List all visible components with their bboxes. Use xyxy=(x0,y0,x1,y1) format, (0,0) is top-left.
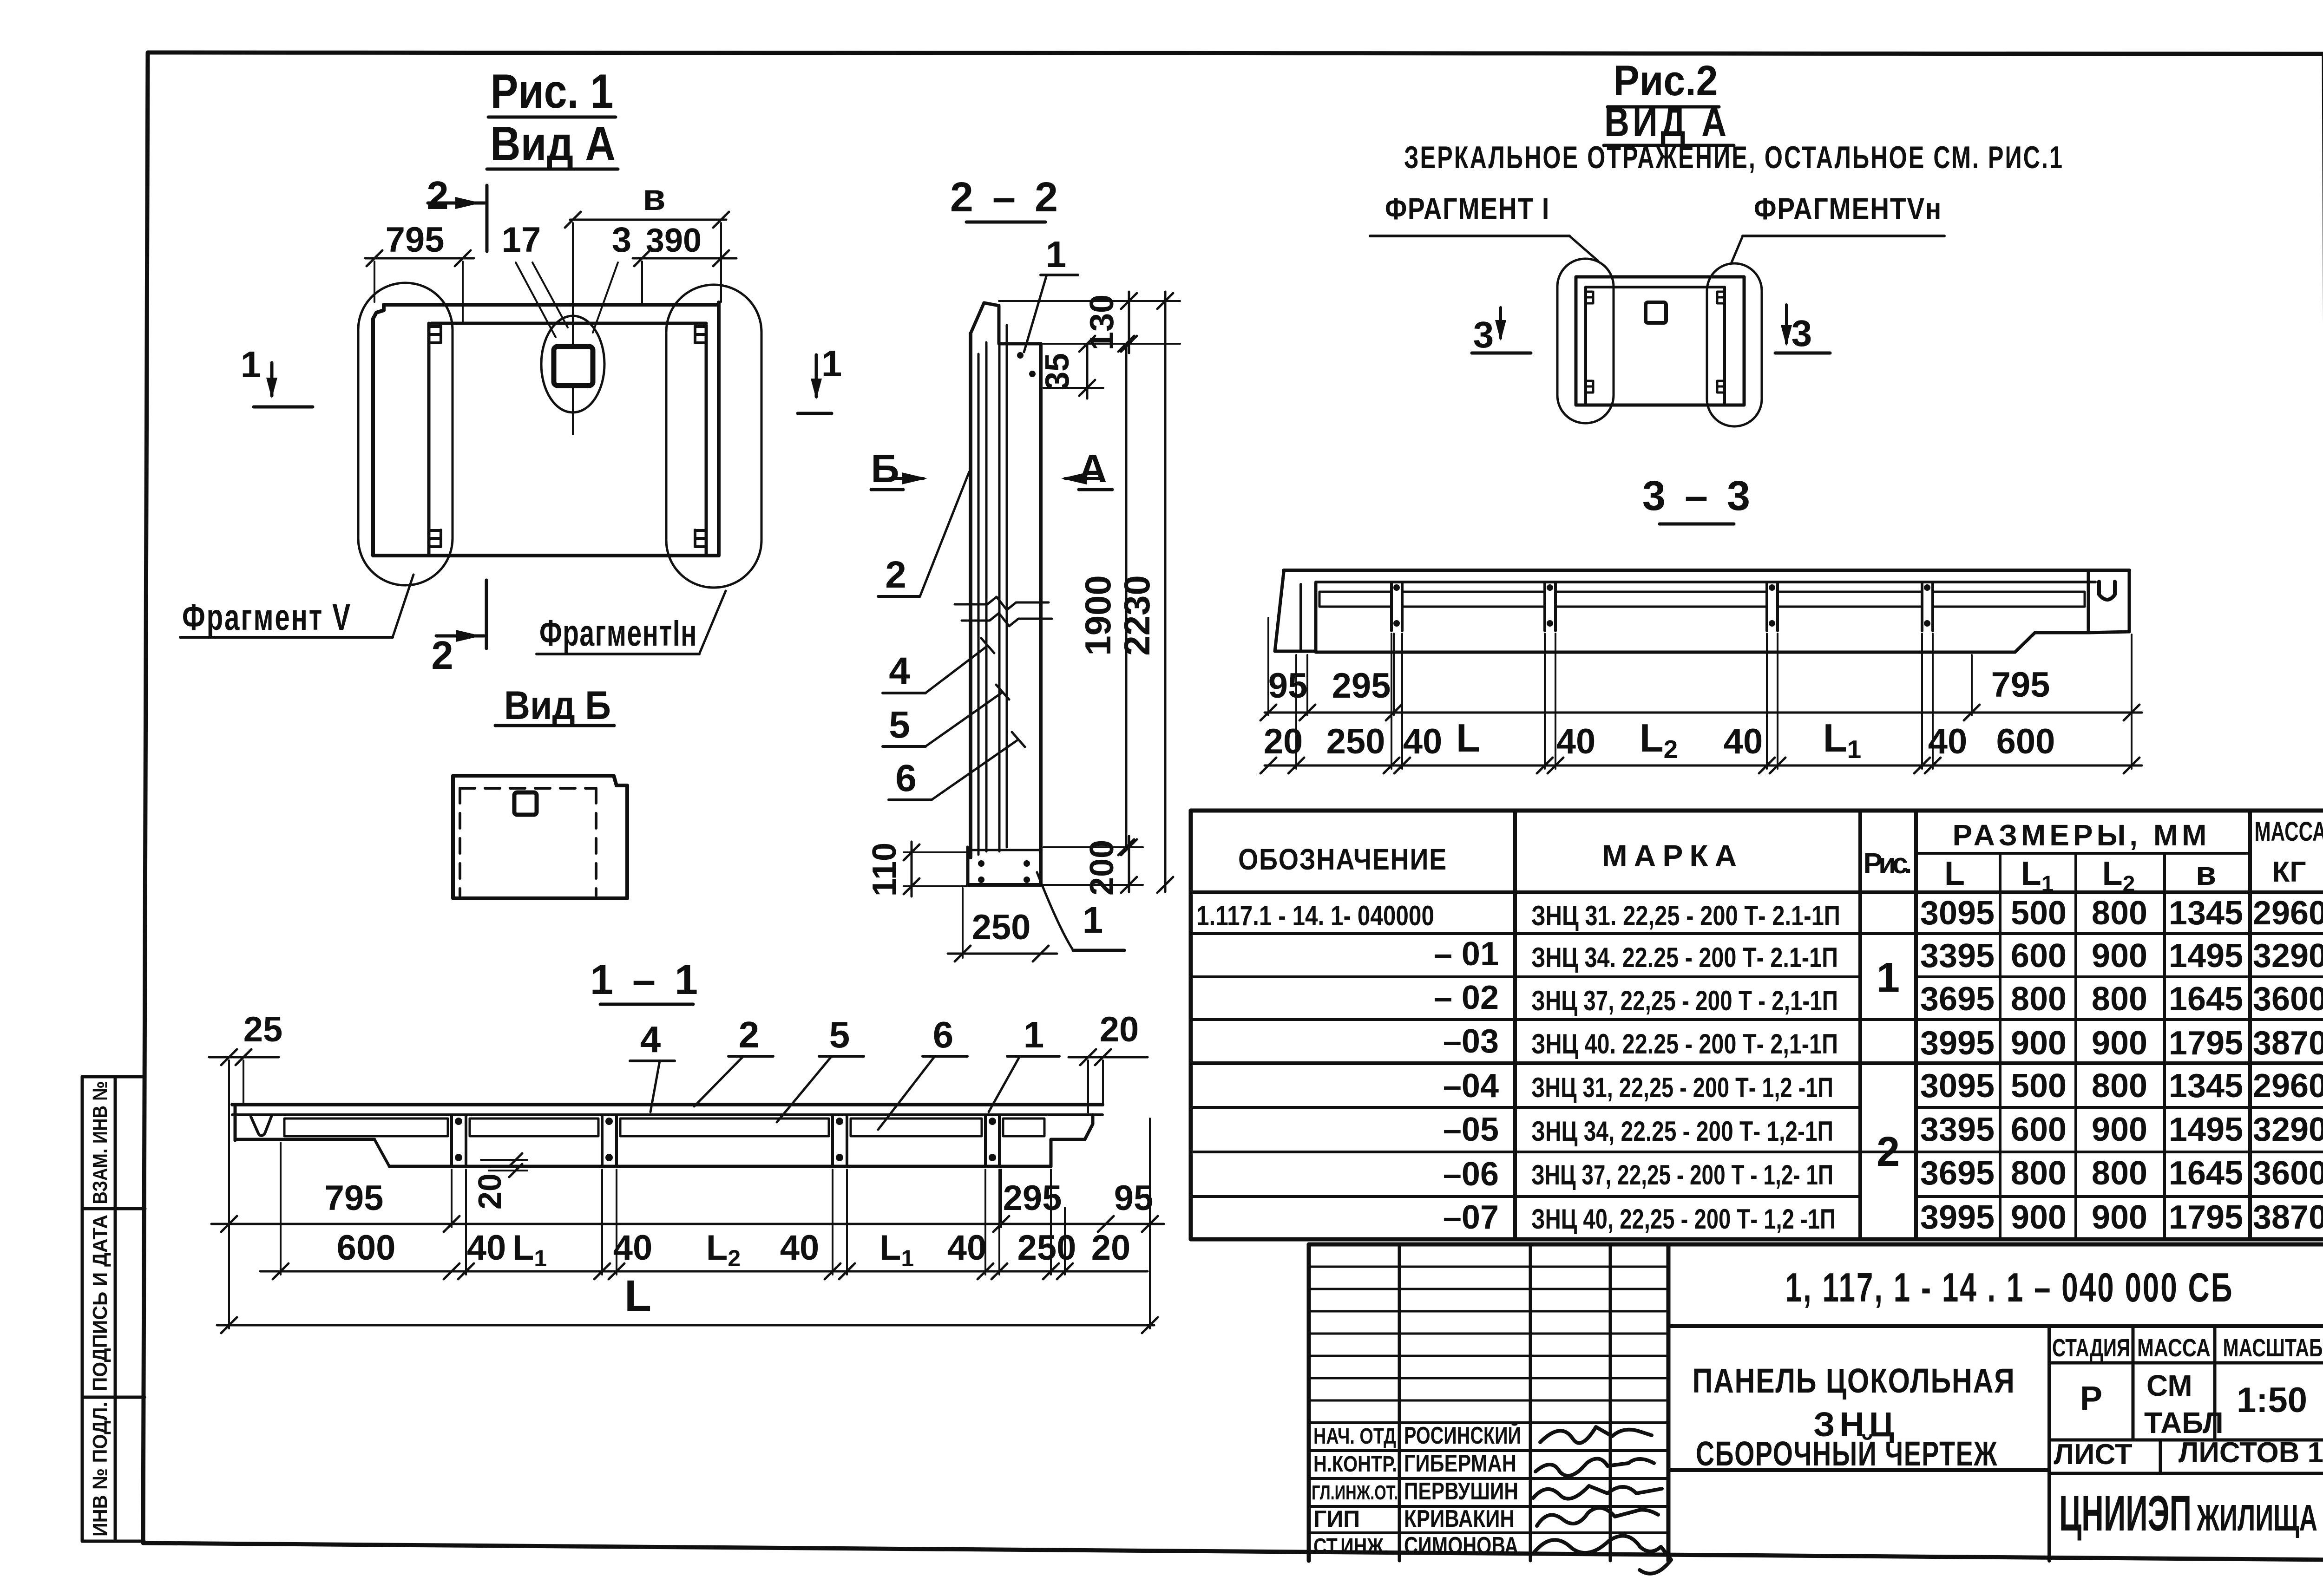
svg-text:КРИВАКИН: КРИВАКИН xyxy=(1404,1505,1515,1532)
position 4 leader (1-1) xyxy=(630,1019,675,1112)
svg-text:600: 600 xyxy=(337,1228,396,1268)
svg-text:1645: 1645 xyxy=(2169,1155,2243,1192)
svg-text:3995: 3995 xyxy=(1920,1199,1995,1236)
svg-text:40: 40 xyxy=(467,1228,506,1268)
label Fragment Vн (Ris.2) xyxy=(1732,191,1944,262)
svg-text:3600: 3600 xyxy=(2253,1155,2323,1192)
dim 20 (1-1 right) xyxy=(1069,1010,1148,1112)
svg-text:ПАНЕЛЬ ЦОКОЛЬНАЯ: ПАНЕЛЬ ЦОКОЛЬНАЯ xyxy=(1693,1361,2015,1400)
svg-text:Н.КОНТР.: Н.КОНТР. xyxy=(1313,1452,1397,1477)
svg-text:110: 110 xyxy=(866,843,903,896)
svg-text:3 – 3: 3 – 3 xyxy=(1642,473,1754,519)
svg-text:500: 500 xyxy=(2011,895,2067,932)
dim row L (1-1) xyxy=(217,1271,1158,1333)
svg-text:ЗНЦ 31, 22,25 - 200 Т- 1,2 -1П: ЗНЦ 31, 22,25 - 200 Т- 1,2 -1П xyxy=(1531,1072,1833,1103)
lifting slot cutout xyxy=(554,347,593,386)
svg-text:L: L xyxy=(1456,716,1480,760)
svg-text:1345: 1345 xyxy=(2169,895,2243,932)
svg-text:ПОДПИСЬ И ДАТА: ПОДПИСЬ И ДАТА xyxy=(89,1215,112,1391)
svg-text:2230: 2230 xyxy=(1116,575,1157,656)
svg-text:СТ.ИНЖ.: СТ.ИНЖ. xyxy=(1313,1534,1389,1559)
svg-text:Фрагмент V: Фрагмент V xyxy=(182,596,352,638)
svg-text:СБОРОЧНЫЙ ЧЕРТЕЖ: СБОРОЧНЫЙ ЧЕРТЕЖ xyxy=(1696,1434,1998,1473)
svg-text:–07: –07 xyxy=(1443,1199,1499,1236)
svg-text:795: 795 xyxy=(325,1178,384,1218)
position 5 leader (1-1) xyxy=(777,1014,864,1122)
svg-text:ЦНИИЭП: ЦНИИЭП xyxy=(2059,1485,2192,1541)
svg-text:СМ: СМ xyxy=(2146,1369,2192,1402)
drawing title xyxy=(1693,1361,2015,1473)
signatures scribbles xyxy=(1533,1427,1671,1574)
table data xyxy=(1196,895,2323,1236)
svg-text:РОСИНСКИЙ: РОСИНСКИЙ xyxy=(1404,1422,1521,1449)
svg-text:L: L xyxy=(624,1271,651,1321)
view Ris.2 titles xyxy=(1404,57,2064,175)
svg-text:95: 95 xyxy=(1268,666,1308,706)
svg-text:40: 40 xyxy=(1724,722,1763,761)
svg-text:200: 200 xyxy=(1083,840,1121,896)
svg-text:2: 2 xyxy=(885,554,906,596)
svg-text:295: 295 xyxy=(1332,666,1391,706)
svg-text:25: 25 xyxy=(243,1010,283,1049)
infill bands xyxy=(284,1119,448,1136)
svg-text:1:50: 1:50 xyxy=(2237,1380,2307,1420)
svg-text:3290: 3290 xyxy=(2253,1111,2323,1148)
label Fragment Iн xyxy=(537,591,726,654)
svg-text:КГ: КГ xyxy=(2272,856,2306,888)
svg-text:Б: Б xyxy=(871,447,899,491)
svg-text:40: 40 xyxy=(1403,722,1443,761)
dim row 20/250/40/L/40/L2/40/L1/40/600 (3-3) xyxy=(1260,634,2142,773)
table grid xyxy=(1191,811,2323,1239)
svg-text:Рис.2: Рис.2 xyxy=(1614,57,1718,105)
svg-text:ГИБЕРМАН: ГИБЕРМАН xyxy=(1404,1450,1516,1477)
dim 130 (2-2) xyxy=(999,292,1180,353)
svg-text:3095: 3095 xyxy=(1920,895,1995,932)
svg-text:795: 795 xyxy=(386,220,445,260)
svg-text:6: 6 xyxy=(933,1014,954,1055)
svg-text:–04: –04 xyxy=(1443,1067,1499,1105)
parts table xyxy=(1191,811,2323,1239)
svg-text:2: 2 xyxy=(1877,1129,1900,1175)
position 6 leader (1-1) xyxy=(878,1014,967,1130)
svg-text:1345: 1345 xyxy=(2169,1067,2243,1105)
dim 200 (2-2) xyxy=(1043,836,1143,896)
svg-text:900: 900 xyxy=(2092,1025,2147,1062)
dim 25 (1-1 left) xyxy=(209,1010,282,1328)
svg-text:20: 20 xyxy=(472,1173,508,1210)
fragment oval left xyxy=(358,283,453,585)
svg-text:ФрагментIн: ФрагментIн xyxy=(539,612,697,654)
svg-text:1495: 1495 xyxy=(2169,937,2243,975)
svg-text:40: 40 xyxy=(1928,722,1968,761)
dim 35 (2-2) xyxy=(1039,336,1103,399)
svg-text:–05: –05 xyxy=(1443,1111,1499,1148)
svg-text:3695: 3695 xyxy=(1920,981,1995,1018)
svg-text:3395: 3395 xyxy=(1920,1111,1995,1148)
svg-text:3290: 3290 xyxy=(2253,937,2323,975)
view Vid B drawing xyxy=(453,776,627,898)
svg-text:ТАБЛ: ТАБЛ xyxy=(2144,1406,2224,1439)
svg-text:1: 1 xyxy=(1083,899,1103,941)
section mark 2 (bottom) xyxy=(431,580,486,678)
svg-text:ПЕРВУШИН: ПЕРВУШИН xyxy=(1404,1478,1518,1505)
break lines xyxy=(955,597,1049,610)
left margin stamp boxes xyxy=(82,1077,145,1541)
signature names xyxy=(1312,1422,1521,1559)
svg-text:800: 800 xyxy=(2011,981,2067,1018)
svg-text:НАЧ. ОТД: НАЧ. ОТД xyxy=(1313,1424,1396,1449)
position label 17 with leaders xyxy=(502,220,568,337)
svg-text:4: 4 xyxy=(889,650,910,692)
section 2-2 body xyxy=(955,303,1052,885)
position 4 leader (2-2) xyxy=(883,638,994,693)
dimension 795 (plan) xyxy=(365,220,474,321)
stage mass scale xyxy=(2052,1334,2323,1541)
section 3-3 title xyxy=(1642,473,1754,524)
svg-text:900: 900 xyxy=(2011,1025,2067,1062)
view Vid B title xyxy=(495,683,614,728)
svg-text:3: 3 xyxy=(612,220,631,260)
svg-text:800: 800 xyxy=(2092,1067,2147,1105)
panel plan (Ris.2) xyxy=(1557,259,1762,426)
section mark 3 (right, Ris.2) xyxy=(1775,305,1830,354)
position label 3 with leader xyxy=(593,220,631,333)
position 1 bottom leader (2-2) xyxy=(1037,872,1124,950)
section 2-2 title xyxy=(950,174,1062,222)
svg-text:ВИД А: ВИД А xyxy=(1604,99,1730,145)
svg-text:ВЗАМ. ИНВ №: ВЗАМ. ИНВ № xyxy=(89,1081,112,1204)
svg-text:600: 600 xyxy=(1996,722,2055,761)
mini dim 20 vertical (1-1) xyxy=(472,1153,527,1210)
svg-text:1900: 1900 xyxy=(1077,575,1118,656)
svg-text:1495: 1495 xyxy=(2169,1111,2243,1148)
svg-text:3870: 3870 xyxy=(2253,1025,2323,1062)
svg-text:40: 40 xyxy=(613,1228,653,1268)
svg-text:Вид Б: Вид Б xyxy=(504,683,611,728)
svg-text:3: 3 xyxy=(1473,314,1494,355)
svg-text:250: 250 xyxy=(1326,722,1385,761)
svg-text:ФРАГМЕНТVн: ФРАГМЕНТVн xyxy=(1754,191,1942,226)
position 6 leader (2-2) xyxy=(889,732,1025,800)
svg-text:2960: 2960 xyxy=(2253,895,2323,932)
svg-text:250: 250 xyxy=(1017,1228,1076,1268)
svg-text:ЗНЦ 34, 22.25 - 200 Т- 1,2-1П: ЗНЦ 34, 22.25 - 200 Т- 1,2-1П xyxy=(1531,1116,1833,1147)
ribs xyxy=(450,1115,453,1166)
section 1-1 body xyxy=(232,1105,1102,1166)
panel plan view (Ris.1) xyxy=(358,283,761,588)
dim row 600/40/L1/40/L2/40/L1/40/250/20 (1-1) xyxy=(260,1143,1148,1279)
svg-text:500: 500 xyxy=(2011,1067,2067,1105)
svg-text:Вид А: Вид А xyxy=(490,117,616,171)
svg-text:3: 3 xyxy=(1791,313,1812,354)
svg-text:1: 1 xyxy=(241,344,262,385)
svg-text:РАЗМЕРЫ, ММ: РАЗМЕРЫ, ММ xyxy=(1953,818,2211,852)
position 2 leader (1-1) xyxy=(694,1014,773,1106)
svg-text:3095: 3095 xyxy=(1920,1067,1995,1105)
view Ris.1 Vid A titles xyxy=(487,65,618,171)
svg-text:1 – 1: 1 – 1 xyxy=(590,957,702,1003)
view arrow А xyxy=(1061,447,1112,491)
svg-text:295: 295 xyxy=(1003,1178,1062,1218)
dim 1900 (2-2) xyxy=(1077,336,1134,855)
svg-text:1: 1 xyxy=(821,343,842,384)
svg-text:– 02: – 02 xyxy=(1434,979,1499,1016)
svg-text:20: 20 xyxy=(1100,1010,1139,1049)
section 3-3 body xyxy=(1275,570,2129,652)
svg-text:1, 117, 1 - 14 . 1 – 040 000: 1, 117, 1 - 14 . 1 – 040 000 СБ xyxy=(1785,1264,2234,1310)
svg-text:Рис.: Рис. xyxy=(1864,848,1912,880)
svg-text:–06: –06 xyxy=(1443,1156,1499,1193)
svg-text:95: 95 xyxy=(1114,1178,1154,1218)
svg-text:3995: 3995 xyxy=(1920,1025,1995,1062)
svg-text:5: 5 xyxy=(829,1014,850,1055)
svg-text:900: 900 xyxy=(2092,937,2147,975)
footing xyxy=(966,847,970,885)
position 2 leader (2-2) xyxy=(878,472,969,596)
svg-text:СИМОНОВА: СИМОНОВА xyxy=(1404,1532,1518,1559)
svg-text:1: 1 xyxy=(1024,1014,1044,1055)
svg-text:40: 40 xyxy=(1556,722,1596,761)
svg-text:40: 40 xyxy=(780,1228,820,1268)
svg-text:МАССА: МАССА xyxy=(2137,1334,2211,1362)
svg-text:ГИП: ГИП xyxy=(1313,1506,1360,1532)
position 5 leader (2-2) xyxy=(883,685,1009,746)
svg-text:А: А xyxy=(1078,447,1107,491)
svg-text:ЗНЦ 34. 22.25 - 200 Т- 2.1-1П: ЗНЦ 34. 22.25 - 200 Т- 2.1-1П xyxy=(1531,942,1838,973)
V hook left end xyxy=(251,1117,271,1136)
anchor dots top xyxy=(1017,352,1024,359)
svg-text:МАРКА: МАРКА xyxy=(1602,838,1744,873)
svg-text:1: 1 xyxy=(1046,234,1067,275)
svg-text:МАССА: МАССА xyxy=(2255,817,2323,847)
svg-text:20: 20 xyxy=(1264,722,1303,761)
svg-text:390: 390 xyxy=(646,222,702,259)
svg-text:в: в xyxy=(2196,855,2216,892)
dim row 95/295/795 (3-3) xyxy=(1260,618,2142,720)
svg-text:ЗНЦ 37, 22,25 - 200 Т - 2,1-1П: ЗНЦ 37, 22,25 - 200 Т - 2,1-1П xyxy=(1531,985,1838,1016)
svg-text:ЗНЦ 31. 22,25 - 200 Т- 2.1-1П: ЗНЦ 31. 22,25 - 200 Т- 2.1-1П xyxy=(1531,900,1840,931)
svg-text:Рис. 1: Рис. 1 xyxy=(491,65,614,118)
svg-text:5: 5 xyxy=(889,704,910,746)
svg-text:800: 800 xyxy=(2092,981,2147,1018)
svg-text:3600: 3600 xyxy=(2253,981,2323,1018)
section mark 1 (left) xyxy=(241,344,313,407)
svg-text:800: 800 xyxy=(2092,1155,2147,1192)
fragment oval right xyxy=(666,285,761,588)
svg-text:3395: 3395 xyxy=(1920,937,1995,975)
callout ellipse xyxy=(541,316,604,412)
svg-text:Р: Р xyxy=(2080,1380,2102,1417)
svg-text:МАСШТАБ: МАСШТАБ xyxy=(2223,1334,2323,1362)
svg-text:600: 600 xyxy=(2011,1111,2067,1148)
svg-text:ФРАГМЕНТ I: ФРАГМЕНТ I xyxy=(1385,191,1550,226)
svg-text:ЖИЛИЩА: ЖИЛИЩА xyxy=(2196,1497,2317,1538)
svg-text:ЗЕРКАЛЬНОЕ ОТРАЖЕНИЕ, ОСТАЛЬНО: ЗЕРКАЛЬНОЕ ОТРАЖЕНИЕ, ОСТАЛЬНОЕ СМ. РИС.… xyxy=(1404,140,2064,175)
svg-text:40: 40 xyxy=(947,1228,987,1268)
dim 250 (2-2) xyxy=(948,888,1057,962)
svg-text:в: в xyxy=(643,177,665,218)
svg-text:35: 35 xyxy=(1039,353,1076,390)
svg-text:ЛИСТ: ЛИСТ xyxy=(2054,1439,2132,1471)
svg-text:–03: –03 xyxy=(1443,1023,1499,1060)
svg-text:1645: 1645 xyxy=(2169,981,2243,1018)
svg-text:ЗНЦ 40. 22.25 - 200 Т- 2,1-1П: ЗНЦ 40. 22.25 - 200 Т- 2,1-1П xyxy=(1531,1028,1838,1060)
svg-text:1.117.1 - 14. 1- 040000: 1.117.1 - 14. 1- 040000 xyxy=(1196,900,1434,931)
svg-text:250: 250 xyxy=(972,908,1031,947)
dimension в xyxy=(565,177,729,434)
svg-text:1: 1 xyxy=(1877,955,1900,1001)
svg-text:2 – 2: 2 – 2 xyxy=(950,174,1062,221)
svg-text:L: L xyxy=(1944,855,1965,892)
svg-text:ЗНЦ 37, 22,25 - 200 Т - 1,2- 1: ЗНЦ 37, 22,25 - 200 Т - 1,2- 1П xyxy=(1531,1159,1833,1190)
dim row 795/295/95 (1-1) xyxy=(211,1119,1164,1328)
position 1 top leader (2-2) xyxy=(1024,234,1078,352)
position 1 leader (1-1) xyxy=(989,1014,1059,1112)
label Fragment I (Ris.2) xyxy=(1370,191,1598,261)
svg-text:ГЛ.ИНЖ.ОТ.: ГЛ.ИНЖ.ОТ. xyxy=(1312,1481,1398,1504)
dimension 390 (plan) xyxy=(633,222,736,303)
svg-text:1795: 1795 xyxy=(2169,1025,2243,1062)
label Fragment V xyxy=(180,575,413,638)
svg-text:900: 900 xyxy=(2011,1199,2067,1236)
svg-text:6: 6 xyxy=(895,757,917,799)
svg-text:3870: 3870 xyxy=(2253,1199,2323,1236)
svg-text:2960: 2960 xyxy=(2253,1067,2323,1105)
svg-text:1795: 1795 xyxy=(2169,1199,2243,1236)
svg-text:ЗНЦ 40, 22,25 - 200 Т- 1,2 -1П: ЗНЦ 40, 22,25 - 200 Т- 1,2 -1П xyxy=(1531,1204,1836,1235)
dim 110 (2-2) xyxy=(866,842,969,896)
signature rows xyxy=(1309,1266,1668,1268)
svg-text:800: 800 xyxy=(2011,1155,2067,1192)
svg-text:900: 900 xyxy=(2092,1111,2147,1148)
section mark 1 (right) xyxy=(798,343,842,413)
svg-text:20: 20 xyxy=(1091,1228,1131,1268)
svg-text:ИНВ № ПОДЛ.: ИНВ № ПОДЛ. xyxy=(89,1402,112,1537)
svg-text:2: 2 xyxy=(739,1014,760,1055)
svg-text:– 01: – 01 xyxy=(1434,935,1499,973)
section 1-1 title xyxy=(590,957,702,1004)
svg-text:900: 900 xyxy=(2092,1199,2147,1236)
title block xyxy=(1309,1244,2323,1574)
svg-text:3695: 3695 xyxy=(1920,1155,1995,1192)
svg-text:4: 4 xyxy=(640,1019,661,1060)
clip marks xyxy=(430,326,441,343)
svg-text:ОБОЗНАЧЕНИЕ: ОБОЗНАЧЕНИЕ xyxy=(1238,843,1447,876)
section mark 2 (top) xyxy=(427,174,487,251)
table headers xyxy=(1238,817,2323,896)
svg-text:795: 795 xyxy=(1991,665,2050,705)
section mark 3 (left, Ris.2) xyxy=(1472,307,1531,355)
svg-text:2: 2 xyxy=(427,174,448,218)
svg-text:800: 800 xyxy=(2092,895,2147,932)
svg-text:600: 600 xyxy=(2011,937,2067,975)
svg-text:2: 2 xyxy=(431,634,453,678)
view arrow Б xyxy=(871,447,927,491)
svg-text:ЛИСТОВ 1: ЛИСТОВ 1 xyxy=(2179,1437,2323,1469)
svg-text:17: 17 xyxy=(502,220,541,260)
dim 2230 (2-2) xyxy=(1116,292,1173,893)
svg-text:СТАДИЯ: СТАДИЯ xyxy=(2052,1334,2130,1362)
